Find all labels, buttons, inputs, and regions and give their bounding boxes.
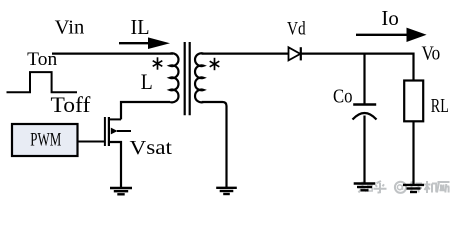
polarity dot secondary (asterisk)	[210, 58, 220, 70]
arrow Io	[356, 28, 427, 42]
transformer core	[185, 42, 190, 115]
PWM controller box	[12, 124, 78, 156]
wire diode to output corner, down to RL	[301, 54, 414, 81]
polarity dot primary (asterisk)	[153, 57, 163, 69]
wire primary bottom to drain	[121, 102, 170, 119]
capacitor Co	[353, 54, 377, 184]
ground (secondary)	[216, 188, 237, 194]
svg-text:PWM: PWM	[30, 130, 61, 151]
ground (RL)	[403, 185, 424, 192]
ground (Co)	[354, 184, 376, 191]
transformer T1 primary winding	[170, 53, 178, 102]
svg-text:RL: RL	[431, 95, 449, 117]
transformer T1 secondary winding	[195, 53, 203, 102]
watermark (Zhihu)	[358, 181, 450, 193]
watermark char hu	[374, 181, 387, 193]
ground (MOSFET source)	[110, 188, 132, 194]
waveform pulse (Ton/Toff)	[7, 72, 78, 92]
resistor RL	[404, 81, 423, 122]
wire PWM to gate	[78, 141, 106, 143]
svg-text:L: L	[141, 69, 153, 94]
transistor Q1 (NMOS)	[105, 117, 131, 188]
wire input top (Vin rail)	[52, 52, 173, 54]
watermark char si	[437, 182, 450, 193]
svg-text:Co: Co	[333, 85, 353, 107]
wire secondary bottom to ground	[202, 102, 227, 188]
svg-text:Vsat: Vsat	[130, 137, 173, 159]
diode Vd	[289, 47, 301, 60]
svg-text:Ton: Ton	[27, 49, 58, 70]
svg-text:Toff: Toff	[51, 92, 92, 117]
watermark char zhi	[358, 182, 367, 193]
watermark char ji	[424, 181, 437, 193]
svg-text:Vin: Vin	[55, 17, 85, 39]
svg-text:Vd: Vd	[287, 18, 306, 39]
svg-text:Io: Io	[381, 6, 398, 30]
svg-text:Vo: Vo	[422, 42, 441, 64]
wire RL to ground	[412, 121, 414, 184]
watermark char hidden	[410, 181, 422, 193]
watermark char at	[395, 182, 406, 193]
arrow IL	[119, 37, 170, 49]
svg-text:IL: IL	[131, 15, 150, 39]
wire secondary top to diode	[202, 52, 289, 54]
